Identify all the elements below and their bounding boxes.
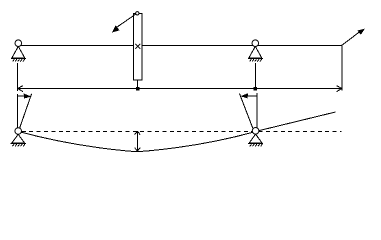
node junction dot at support B on dimension line <box>254 87 258 91</box>
wire dashed undeflected reference line <box>22 131 342 133</box>
wire deflected beam curve <box>18 131 255 151</box>
dimension line span <box>18 88 343 90</box>
wire beam right end edge <box>341 46 343 91</box>
wire extension line column base <box>137 80 139 89</box>
wire deflected overhang line <box>255 112 335 132</box>
wire beam top chord <box>18 45 342 47</box>
node X marker at beam-column joint <box>135 44 140 49</box>
slope indicator right: rotated tangent <box>240 94 254 129</box>
support A pin (left, on beam) <box>11 40 26 62</box>
slope indicator left: rotation arrow <box>18 94 32 99</box>
wire extension line support B <box>255 63 257 89</box>
support B' pin (deflected diagram right) <box>248 128 263 147</box>
dimension arrowhead right <box>337 86 342 92</box>
node marker at column top (load application point) <box>136 12 139 15</box>
force arrow F1 at column top <box>112 14 136 33</box>
support B pin (mid-right, on beam) <box>248 40 263 62</box>
column member (vertical post at load point) <box>134 14 143 81</box>
force arrow F2 at beam right end <box>342 29 365 46</box>
dimension arrowhead left <box>18 86 23 92</box>
wire extension line left support <box>17 63 19 91</box>
node junction dot at column base on dimension line <box>136 87 140 91</box>
slope indicator left: vertical reference <box>17 94 19 128</box>
support A' pin (deflected diagram left) <box>11 128 26 147</box>
slope indicator right: vertical reference <box>256 93 258 128</box>
max deflection arrow <box>135 131 141 151</box>
slope indicator right: rotation arrow <box>240 93 256 98</box>
slope indicator left: rotated tangent <box>19 94 31 129</box>
